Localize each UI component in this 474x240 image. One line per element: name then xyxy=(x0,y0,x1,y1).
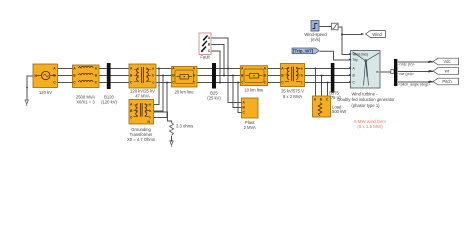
wire: three-phase A source to 2500MVA xyxy=(58,69,73,83)
bus selector xyxy=(391,59,398,86)
node: fault junction phase A xyxy=(227,68,229,70)
wire: Vdc signal xyxy=(398,61,433,63)
svg-text:Doubly-fed induction generator: Doubly-fed induction generator xyxy=(337,97,395,102)
svg-text:c: c xyxy=(149,115,151,119)
ground (resistor) xyxy=(170,141,173,147)
wire: fault phase A drop xyxy=(212,38,229,69)
wire: grounding transformer neutral to resistor xyxy=(154,112,172,141)
wire: grounding transformer phase c riser xyxy=(154,83,167,118)
wind turbine DFIG block xyxy=(337,51,395,109)
goto tag wr xyxy=(430,68,459,75)
svg-text:Wind (m/s): Wind (m/s) xyxy=(353,53,368,57)
wire: fault phase B drop xyxy=(212,45,225,76)
svg-text:Fault: Fault xyxy=(200,55,210,60)
node: load tap phase A xyxy=(315,68,317,70)
wire: load phase A tap xyxy=(315,69,317,97)
svg-text:6 x 2 MVA: 6 x 2 MVA xyxy=(283,94,302,99)
wire: plant phase A tap xyxy=(228,69,242,103)
svg-text:b: b xyxy=(152,73,154,77)
node: load tap phase B xyxy=(321,75,323,77)
wire: 10km line to transformer 6x2MVA xyxy=(268,69,281,83)
node: wind signal branch xyxy=(341,34,343,36)
from tag Trip_WT xyxy=(292,48,319,54)
svg-text:3.3 ohms: 3.3 ohms xyxy=(176,123,193,128)
svg-text:47 MVA: 47 MVA xyxy=(135,94,150,99)
node: load tap phase C xyxy=(327,82,329,84)
svg-text:120 kV: 120 kV xyxy=(39,90,52,95)
node: neutral wire junction xyxy=(26,87,28,89)
wire: load phase B tap xyxy=(321,76,323,97)
svg-text:b: b xyxy=(301,73,303,77)
wire: wind speed to rate limiter xyxy=(320,26,332,28)
resistor 3.3 ohms xyxy=(170,123,174,136)
ground (source neutral) xyxy=(25,100,28,106)
svg-text:(phasor type 1): (phasor type 1) xyxy=(351,103,380,108)
wire: load phase C tap xyxy=(327,83,329,97)
wire: rate limiter to turbine Wind input xyxy=(339,27,351,55)
wire: turbine measurement output to bus selector xyxy=(381,71,395,73)
svg-text:(25 kV): (25 kV) xyxy=(207,96,221,101)
node: plant tap phase C xyxy=(237,82,239,84)
transformer 25kV/575V 6x2MVA xyxy=(281,64,305,100)
wire: transformer 6x2MVA to wind turbine through bus B575 xyxy=(305,69,351,83)
svg-text:(120 kV): (120 kV) xyxy=(101,100,117,105)
source 120kV xyxy=(33,64,58,95)
node: fault junction phase B xyxy=(223,75,225,77)
svg-text:X0 = 4.7 Ohms: X0 = 4.7 Ohms xyxy=(127,137,155,142)
wire: branch to Wind goto tag xyxy=(342,34,362,36)
wind speed source block xyxy=(304,21,327,43)
20 km line xyxy=(172,66,198,94)
svg-text:<pitch_angle (deg)>: <pitch_angle (deg)> xyxy=(399,83,431,87)
wire: grounding transformer phase a riser xyxy=(154,69,159,105)
svg-text:2 MVA: 2 MVA xyxy=(244,125,256,130)
node: grounding transformer tap phase C xyxy=(166,82,168,84)
svg-text:(m/s): (m/s) xyxy=(311,37,321,42)
svg-text:wr: wr xyxy=(445,69,450,74)
load 500kW xyxy=(313,96,347,117)
wire: grounding transformer phase b riser xyxy=(154,76,163,112)
svg-text:<Vdc (V)>: <Vdc (V)> xyxy=(399,63,415,67)
node: grounding transformer tap phase A xyxy=(158,68,160,70)
node: resistor to ground junction xyxy=(171,140,173,142)
svg-text:Wind: Wind xyxy=(372,32,382,37)
grounding transformer xyxy=(127,100,155,143)
wire: wr signal xyxy=(398,71,433,73)
svg-text:500 kW: 500 kW xyxy=(332,109,346,114)
node: plant tap phase B xyxy=(232,75,234,77)
wire: plant phase C tap xyxy=(238,83,242,113)
wire: source neutral to ground xyxy=(27,76,34,100)
node: fault junction phase C xyxy=(219,82,221,84)
svg-text:c: c xyxy=(152,80,154,84)
wire: 20km line to 10km line through bus B25 xyxy=(198,69,241,83)
10 km line xyxy=(240,66,267,93)
bus B120 xyxy=(101,63,117,105)
wire: Trip_WT tag to turbine Trip input xyxy=(320,51,351,60)
svg-text:10 km line: 10 km line xyxy=(244,88,264,93)
rate limiter block xyxy=(329,23,338,30)
svg-text:[Trip_WT]: [Trip_WT] xyxy=(293,49,314,54)
node: pitch signal arrow dot xyxy=(428,81,430,83)
svg-text:m: m xyxy=(376,70,379,74)
svg-text:a: a xyxy=(152,66,154,70)
node: wr signal arrow dot xyxy=(428,71,430,73)
svg-text:25 kV/575 V: 25 kV/575 V xyxy=(281,89,304,94)
wire: plant phase B tap xyxy=(233,76,242,108)
fault block xyxy=(199,33,211,60)
goto tag Pitch xyxy=(430,78,459,85)
wire: pitch signal xyxy=(398,81,433,83)
goto tag Wind xyxy=(361,31,386,38)
node: grounding transformer tap phase B xyxy=(162,75,164,77)
source impedance 2500 MVA xyxy=(73,65,100,105)
bus B575 xyxy=(327,63,341,100)
svg-text:a: a xyxy=(149,102,151,106)
wire: fault phase C drop xyxy=(212,51,221,83)
wire: 2500MVA to transformer 47MVA through bus B120 xyxy=(100,69,130,83)
wire: transformer 47MVA to 20km line xyxy=(157,69,173,83)
plant 2 MVA xyxy=(242,98,259,130)
svg-text:Vdc: Vdc xyxy=(443,59,450,64)
svg-text:Trip: Trip xyxy=(353,58,359,62)
goto tag Vdc xyxy=(430,58,459,65)
transformer 120kV/25kV 47MVA xyxy=(129,64,156,99)
node: Vdc signal arrow dot xyxy=(428,61,430,63)
svg-text:Pitch: Pitch xyxy=(442,79,452,84)
svg-text:<wr (pu)>: <wr (pu)> xyxy=(399,72,414,76)
svg-text:20 km line: 20 km line xyxy=(174,90,194,95)
svg-text:(6 x 1.5 MW): (6 x 1.5 MW) xyxy=(357,124,383,129)
bus B25 xyxy=(207,63,221,101)
svg-text:c: c xyxy=(301,80,303,84)
svg-text:a: a xyxy=(301,66,303,70)
svg-text:Wind turbine -: Wind turbine - xyxy=(351,92,378,97)
svg-text:X0/X1 = 3: X0/X1 = 3 xyxy=(76,100,95,105)
svg-text:b: b xyxy=(149,109,151,113)
